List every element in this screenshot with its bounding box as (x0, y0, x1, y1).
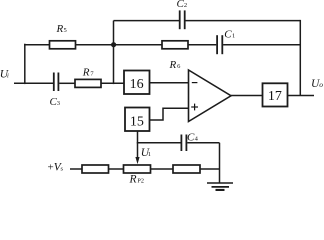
svg-text:17: 17 (268, 89, 282, 104)
svg-text:2: 2 (184, 2, 187, 9)
wire: op-amp output to block 17 (231, 95, 263, 97)
potentiometer RP2 (124, 165, 151, 173)
wire: left vertical riser (24, 44, 26, 84)
svg-text:7: 7 (90, 71, 94, 78)
wire: R6 to C1 (188, 44, 216, 46)
wire: block 15 to op-amp non-inverting input (150, 108, 189, 120)
svg-text:1: 1 (232, 33, 235, 40)
resistor R7 (75, 79, 101, 87)
block 17 (263, 83, 288, 106)
svg-text:16: 16 (130, 77, 144, 92)
value label R7 (82, 67, 95, 79)
value label C3 (50, 96, 61, 108)
svg-text:+: + (48, 161, 54, 173)
input label Ui (0, 69, 9, 81)
svg-text:i: i (7, 73, 9, 80)
svg-text:1: 1 (148, 151, 151, 158)
wire: Ui input lead to C3 (14, 82, 53, 84)
wire: top row to C2 (114, 20, 180, 22)
wire: C3 to R7 (59, 82, 75, 84)
capacitor C4 (181, 135, 186, 152)
wire: resistor to RP2 (109, 168, 124, 170)
wire: C4 to ground vertical (187, 142, 219, 144)
resistor (left of RP2) (82, 165, 109, 173)
ground (207, 183, 233, 190)
svg-text:5: 5 (64, 27, 67, 34)
node label U1 (141, 147, 151, 159)
svg-text:4: 4 (195, 135, 199, 142)
wire: node to C4 (137, 142, 181, 144)
wire: resistor to ground vertical (200, 168, 220, 170)
wire: +Vs lead (70, 168, 82, 170)
wire: block 16 to op-amp inverting input (150, 82, 189, 84)
value label C1 (224, 29, 235, 41)
block 15 (125, 108, 150, 132)
wire: block 15 bottom lead (137, 131, 139, 143)
wire: RP2 to right resistor (151, 168, 174, 170)
wire: block 17 to output (288, 95, 315, 97)
value label R5 (56, 23, 67, 35)
svg-text:R: R (169, 59, 177, 71)
wire: riser to R5 (24, 44, 49, 46)
resistor R5 (50, 41, 76, 49)
wire: C2 to right vertical (186, 20, 301, 22)
svg-text:o: o (319, 80, 323, 89)
resistor (right of RP2) (173, 165, 200, 173)
value label C2 (177, 0, 188, 10)
value label RP2 (129, 174, 144, 186)
wire: arrow to RP2 wiper (135, 143, 139, 164)
wire: R7 to block 16 (101, 82, 124, 84)
svg-text:R: R (56, 23, 64, 35)
svg-text:s: s (61, 165, 64, 172)
wire: ground vertical (219, 143, 221, 183)
block 16 (124, 71, 150, 95)
pin label: non-inverting input plus (191, 104, 198, 111)
capacitor C1 (217, 35, 222, 54)
junction node dot (111, 42, 116, 47)
value label R6 (169, 59, 182, 71)
wire: right vertical feedback line (299, 20, 301, 96)
value label C4 (187, 131, 199, 143)
svg-text:3: 3 (57, 100, 60, 107)
capacitor C3 (54, 73, 59, 92)
svg-text:R: R (82, 67, 90, 79)
wire: C1 to right vertical (223, 44, 300, 46)
resistor R6 (162, 41, 188, 49)
svg-text:15: 15 (130, 115, 144, 130)
pin label: inverting input minus (192, 82, 198, 84)
wire: junction vertical (C2 row to Ui row) (113, 21, 115, 85)
supply label +Vs (48, 161, 64, 173)
output label Uo (311, 78, 323, 90)
svg-text:P2: P2 (137, 178, 144, 185)
svg-text:R: R (129, 174, 137, 186)
op-amp (189, 70, 232, 122)
capacitor C2 (180, 10, 185, 29)
wire: junction to R6 (114, 44, 163, 46)
svg-text:6: 6 (177, 63, 181, 70)
wire: R5 to junction (76, 44, 114, 46)
